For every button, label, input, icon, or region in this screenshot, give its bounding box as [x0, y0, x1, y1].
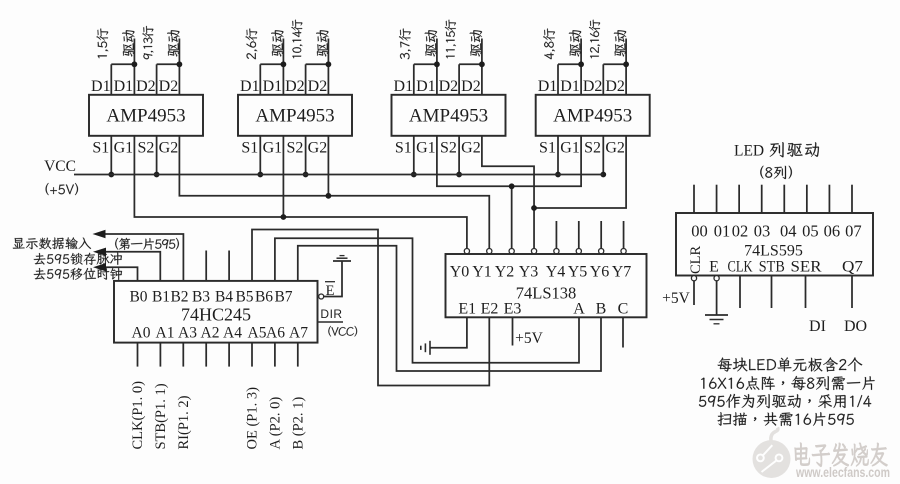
transistor U1 AMP4953 dual P-MOSFET	[89, 95, 203, 136]
wire bus U3.G1-U4.G1	[437, 136, 581, 187]
bubble Y7 inverted output	[621, 249, 626, 254]
svg-text:07: 07	[845, 222, 862, 241]
label 驱动 for 2,6行	[271, 30, 283, 56]
wire 595 Q5 up	[806, 185, 808, 213]
svg-text:AMP4953: AMP4953	[106, 105, 185, 126]
wire U4 S2 to VCC rail	[602, 136, 604, 175]
wire U1 D1b up	[133, 39, 135, 95]
svg-text:S2: S2	[440, 140, 457, 157]
wire bus U1.G1/U2.G1 to Y0	[134, 136, 467, 251]
wire 595 shift clock to B0	[104, 267, 138, 281]
svg-text:Y6: Y6	[590, 264, 610, 281]
label 9,13行驱动 row drive (part1)	[142, 26, 153, 59]
svg-text:G1: G1	[114, 140, 134, 157]
wire A to 245 B6	[275, 238, 579, 362]
wire U3 S1 to VCC rail	[413, 136, 415, 175]
wire B to 245 B7	[298, 246, 601, 371]
svg-text:D2: D2	[159, 78, 179, 95]
svg-text:D1: D1	[560, 78, 580, 95]
svg-text:D2: D2	[439, 78, 459, 95]
svg-text:B3: B3	[192, 289, 210, 306]
svg-text:S2: S2	[286, 140, 303, 157]
svg-text:Y5: Y5	[568, 264, 588, 281]
svg-text:D1: D1	[538, 78, 558, 95]
watermark 电子发烧友	[795, 443, 888, 467]
svg-text:A0: A0	[132, 325, 151, 342]
label 驱动 for 3,7行	[425, 30, 437, 56]
svg-text:G2: G2	[461, 140, 481, 157]
bubble U5 OE-bar input	[319, 294, 324, 299]
svg-text:74HC245: 74HC245	[181, 305, 251, 325]
svg-text:B1: B1	[152, 289, 170, 306]
wire U4 D2 pair join	[603, 63, 626, 65]
wire U3 D1 pair join	[414, 63, 437, 65]
label 列驱动 column drive	[770, 142, 819, 157]
svg-text:S1: S1	[241, 140, 258, 157]
svg-text:D1: D1	[416, 78, 436, 95]
junction U4 S2 on VCC	[600, 172, 606, 178]
svg-text:D2: D2	[583, 78, 603, 95]
svg-text:01: 01	[714, 222, 731, 241]
svg-text:Y1: Y1	[472, 264, 492, 281]
svg-text:D2: D2	[285, 78, 305, 95]
svg-text:G1: G1	[263, 140, 283, 157]
wire U3 S2 to VCC rail	[458, 136, 460, 175]
svg-text:+5V: +5V	[662, 290, 690, 307]
svg-text:05: 05	[802, 222, 819, 241]
wire U4 D2a up	[602, 64, 604, 95]
junction U2 S1 on VCC	[257, 172, 263, 178]
wire CLR to +5V	[693, 281, 695, 305]
svg-text:S2: S2	[137, 140, 154, 157]
label 4,8行驱动 row drive (part1)	[543, 28, 555, 59]
svg-text:A3: A3	[178, 325, 197, 342]
svg-text:OE (P1. 3): OE (P1. 3)	[245, 387, 261, 450]
bubble Y3 inverted output	[531, 249, 536, 254]
wire U5 A2 stub down	[182, 343, 184, 367]
wire U1 D2a up	[156, 64, 158, 95]
wire E2 to 245 B5	[252, 230, 489, 386]
wire OE-bar to pull symbol	[324, 261, 342, 297]
wire U5 A0 stub down	[137, 343, 139, 367]
wire U3 D2 pair join	[459, 63, 482, 65]
wire U5 A6 stub down	[274, 343, 276, 367]
junction U4 D1	[578, 61, 584, 67]
label (+5V)	[46, 183, 78, 195]
label 驱动 for 11,15行	[470, 30, 482, 56]
wire U5 A5 stub down	[251, 343, 253, 367]
svg-text:B0: B0	[129, 289, 147, 306]
svg-text:DO: DO	[844, 318, 867, 335]
svg-text:E3: E3	[504, 301, 522, 318]
wire 595 Q6 up	[828, 185, 830, 213]
label 驱动 for 12,16行	[614, 30, 626, 56]
junction U2 D2	[326, 61, 332, 67]
svg-text:AMP4953: AMP4953	[255, 105, 334, 126]
svg-text:G2: G2	[308, 140, 328, 157]
overline of E	[325, 281, 335, 283]
svg-text:AMP4953: AMP4953	[553, 105, 632, 126]
svg-text:D2: D2	[605, 78, 625, 95]
wire U2 D2 pair join	[306, 63, 329, 65]
wire U4 D1b up	[580, 39, 582, 95]
wire U4 D1a up	[557, 64, 559, 95]
svg-text:Y7: Y7	[612, 264, 632, 281]
svg-text:DIR: DIR	[320, 307, 342, 321]
svg-text:D1: D1	[114, 78, 134, 95]
wire B3 stub up	[205, 251, 207, 281]
svg-text:Y0: Y0	[450, 264, 470, 281]
svg-text:CLR: CLR	[688, 245, 704, 274]
junction Y3 on bus D	[531, 205, 537, 211]
wire Y7 stub up	[623, 221, 625, 251]
wire DIR stub	[319, 321, 344, 323]
junction U2 G1 on Y0 bus	[281, 214, 287, 220]
wire U3 D1b up	[436, 39, 438, 95]
label 11,15行驱动 row drive (part1)	[445, 20, 456, 59]
svg-text:G2: G2	[605, 140, 625, 157]
junction U2 G2 on Y1 bus	[326, 193, 332, 199]
wire 595 Q3 up	[761, 185, 763, 213]
svg-text:74LS595: 74LS595	[744, 243, 803, 260]
wire U2 G1 down	[282, 136, 284, 217]
wire U4 S1 to VCC rail	[557, 136, 559, 175]
svg-text:A4: A4	[223, 325, 242, 342]
bubble Y4 inverted output	[554, 249, 559, 254]
svg-text:D2: D2	[136, 78, 156, 95]
wire U5 A4 stub down	[228, 343, 230, 367]
arrowhead shift clock	[93, 263, 106, 271]
junction U1 D1	[132, 61, 138, 67]
bubble Y5 inverted output	[576, 249, 581, 254]
label 12,16行驱动 row drive (part1)	[589, 20, 600, 59]
svg-text:RI(P1. 2): RI(P1. 2)	[176, 395, 192, 449]
svg-text:AMP4953: AMP4953	[409, 105, 488, 126]
wire 595 Q4 up	[783, 185, 785, 213]
svg-text:G1: G1	[416, 140, 436, 157]
wire Y6 stub up	[600, 221, 602, 251]
svg-text:E: E	[326, 283, 335, 299]
svg-text:S1: S1	[539, 140, 556, 157]
svg-text:B: B	[596, 301, 607, 318]
wire Y2 up to bus	[511, 186, 513, 251]
wire U3 G2 jog down to Y3	[482, 136, 534, 251]
label 1,5行驱动 row drive (part1)	[97, 28, 109, 58]
wire C stub	[622, 317, 624, 347]
label 去595移位时钟 to 595 shift clock	[34, 268, 122, 280]
svg-text:02: 02	[732, 222, 749, 241]
wire U2 G2 down	[327, 136, 329, 196]
svg-text:S2: S2	[584, 140, 601, 157]
svg-text:www.elecfans.com: www.elecfans.com	[795, 465, 890, 480]
svg-text:STB: STB	[759, 259, 785, 276]
svg-text:D2: D2	[461, 78, 481, 95]
svg-text:CLK: CLK	[728, 259, 754, 276]
wire U1 S1 to VCC rail	[110, 136, 112, 175]
wire 595 Q2 up	[738, 185, 740, 213]
IC U7 74LS595 column driver	[676, 213, 873, 276]
wire U1 S2 to VCC rail	[156, 136, 158, 175]
wire U3 D2b up	[481, 39, 483, 95]
junction U4 D2	[623, 61, 629, 67]
svg-text:DI: DI	[809, 318, 826, 335]
wire U4 D2b up	[625, 39, 627, 95]
svg-text:E1: E1	[458, 301, 476, 318]
label 3,7行驱动 row drive (part1)	[399, 28, 411, 59]
wire E3 stub	[512, 317, 514, 345]
wire U4 D1 pair join	[558, 63, 581, 65]
junction U4 S1 on VCC	[555, 172, 561, 178]
svg-text:SER: SER	[791, 259, 823, 276]
wire U5 A7 stub down	[297, 343, 299, 367]
wire CLK stub	[739, 276, 741, 309]
junction U3 D1	[434, 61, 440, 67]
svg-text:D1: D1	[91, 78, 111, 95]
wire U2 D1b up	[282, 39, 284, 95]
svg-text:B5: B5	[235, 289, 253, 306]
svg-text:A: A	[573, 301, 585, 318]
svg-text:B7: B7	[274, 289, 292, 306]
transistor U4 AMP4953 dual P-MOSFET	[536, 95, 650, 136]
junction U3 S2 on VCC	[456, 172, 462, 178]
junction Y2 on bus C	[509, 183, 515, 189]
junction U2 S2 on VCC	[303, 172, 309, 178]
svg-text:C: C	[618, 301, 629, 318]
bubble E active-low	[714, 276, 719, 281]
bubble Y1 inverted output	[487, 249, 492, 254]
label 驱动 for 10,14行	[316, 30, 328, 56]
label 驱动 for 9,13行	[167, 30, 179, 56]
wire bus to U4 G2	[534, 136, 626, 208]
wire U2 D1a up	[259, 64, 261, 95]
svg-text:A2: A2	[201, 325, 220, 342]
svg-text:04: 04	[780, 222, 797, 241]
svg-text:A6: A6	[266, 325, 285, 342]
ground at U7 E pin	[705, 314, 728, 316]
svg-text:Y3: Y3	[519, 264, 539, 281]
transistor U3 AMP4953 dual P-MOSFET	[392, 95, 506, 136]
wire U2 D2a up	[305, 64, 307, 95]
svg-text:A7: A7	[289, 325, 308, 342]
arrowhead latch pulse	[93, 248, 106, 256]
label 2,6行驱动 row drive (part1)	[246, 28, 258, 59]
label 驱动 for 4,8行	[569, 30, 581, 56]
bubble Y0 inverted output	[464, 249, 469, 254]
wire U1 D1 pair join	[111, 63, 134, 65]
wire 595 Q1 up	[716, 185, 718, 213]
svg-text:E: E	[709, 259, 719, 276]
svg-text:A5: A5	[248, 325, 267, 342]
svg-text:Y2: Y2	[495, 264, 515, 281]
wire U5 A3 stub down	[205, 343, 207, 367]
wire STB stub	[771, 276, 773, 309]
svg-text:LED: LED	[734, 143, 764, 160]
svg-text:CLK(P1. 0): CLK(P1. 0)	[130, 381, 146, 450]
transistor U2 AMP4953 dual P-MOSFET	[238, 95, 352, 136]
wire Y5 stub up	[578, 221, 580, 251]
svg-text:03: 03	[754, 222, 771, 241]
svg-text:+5V: +5V	[515, 330, 543, 347]
svg-text:B2: B2	[170, 289, 188, 306]
svg-text:D1: D1	[263, 78, 283, 95]
junction U3 S1 on VCC	[411, 172, 417, 178]
wire U1 D2 pair join	[157, 63, 180, 65]
svg-text:S1: S1	[92, 140, 109, 157]
svg-text:A (P2. 0): A (P2. 0)	[267, 397, 283, 450]
svg-text:G2: G2	[159, 140, 179, 157]
note text block	[718, 357, 863, 371]
wire U2 S1 to VCC rail	[259, 136, 261, 175]
wire U2 D2b up	[327, 39, 329, 95]
IC U6 74LS138 decoder	[446, 254, 647, 317]
wire Q7 stub	[851, 276, 853, 309]
wire U5 A1 stub down	[159, 343, 161, 367]
wire display-data line to B2	[104, 234, 183, 281]
svg-text:G1: G1	[560, 140, 580, 157]
wire U2 S2 to VCC rail	[305, 136, 307, 175]
wire VCC +5V rail	[74, 174, 603, 176]
wire 595 Q7 up	[851, 185, 853, 213]
bubble CLR active-low	[691, 276, 696, 281]
wire U3 D2a up	[458, 64, 460, 95]
wire SER stub	[805, 276, 807, 309]
bubble Y2 inverted output	[509, 249, 514, 254]
svg-text:E2: E2	[481, 301, 499, 318]
svg-text:S1: S1	[395, 140, 412, 157]
svg-text:Y4: Y4	[546, 264, 566, 281]
label (第一片595) first 595	[115, 238, 179, 250]
svg-text:B (P2. 1): B (P2. 1)	[290, 397, 306, 450]
wire B4 stub up	[228, 251, 230, 281]
svg-text:VCC: VCC	[44, 158, 76, 175]
svg-text:B4: B4	[215, 289, 233, 306]
svg-text:D1: D1	[240, 78, 260, 95]
svg-text:A1: A1	[156, 325, 175, 342]
bubble Y6 inverted output	[599, 249, 604, 254]
ground at E1 (sideways)	[429, 341, 431, 355]
junction U1 D2	[177, 61, 183, 67]
wire Y4 stub up	[555, 221, 557, 251]
junction U1 S1 on VCC	[108, 172, 114, 178]
inverted ground / rail symbol above OE-bar	[333, 260, 351, 262]
wire E1 to ground	[430, 317, 467, 348]
label 去595锁存脉冲 to 595 latch pulse	[34, 253, 122, 265]
svg-text:06: 06	[824, 222, 841, 241]
svg-text:Q7: Q7	[842, 259, 863, 276]
wire U1 D2b up	[178, 39, 180, 95]
svg-text:B6: B6	[255, 289, 273, 306]
wire U2 D1 pair join	[260, 63, 283, 65]
watermark elecfans logo	[753, 428, 791, 479]
svg-text:00: 00	[691, 222, 708, 241]
label 显示数据输入 display data input	[13, 237, 91, 249]
wire 595 latch pulse to B1	[104, 252, 160, 281]
label 10,14行驱动 row drive (part1)	[291, 20, 302, 59]
label (VCC)	[328, 326, 357, 337]
wire U1 D1a up	[110, 64, 112, 95]
svg-text:STB(P1. 1): STB(P1. 1)	[153, 383, 169, 449]
arrowhead display data input	[93, 230, 106, 238]
svg-text:D1: D1	[394, 78, 414, 95]
svg-text:74LS138: 74LS138	[516, 284, 577, 303]
label (8列) 8 columns	[760, 166, 792, 179]
junction U3 D2	[479, 61, 485, 67]
wire E to ground	[716, 281, 718, 315]
wire 595 Q0 up	[693, 185, 695, 213]
junction U1 S2 on VCC	[154, 172, 160, 178]
wire U3 D1a up	[413, 64, 415, 95]
label 驱动 for 1,5行	[122, 30, 134, 56]
junction U2 D1	[281, 61, 287, 67]
IC U5 74HC245 buffer	[114, 281, 318, 343]
svg-text:D2: D2	[308, 78, 328, 95]
wire bus U1.G2/U2.G2 to Y1	[179, 136, 489, 251]
